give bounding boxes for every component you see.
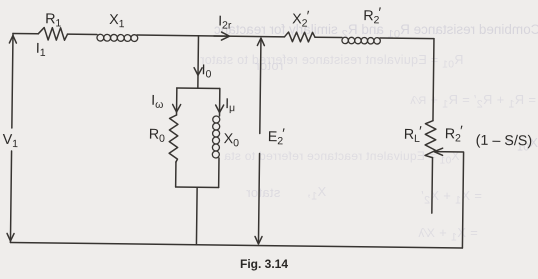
svg-text:E2′: E2′ (268, 126, 286, 147)
svg-text:X0: X0 (224, 131, 240, 149)
svg-text:V1: V1 (3, 132, 19, 150)
svg-text:I2r: I2r (218, 14, 232, 32)
svg-text:R2′: R2′ (445, 123, 463, 144)
svg-text:R1: R1 (45, 11, 62, 29)
svg-text:Iμ: Iμ (225, 96, 235, 114)
svg-text:I0: I0 (201, 62, 211, 80)
svg-text:Iω: Iω (151, 93, 163, 111)
svg-text:X2′: X2′ (292, 8, 310, 29)
svg-text:(1 – S/S): (1 – S/S) (476, 133, 533, 150)
svg-text:RL′: RL′ (404, 124, 422, 145)
svg-text:I1: I1 (36, 41, 46, 59)
svg-text:R2′: R2′ (363, 5, 381, 26)
svg-text:X1: X1 (109, 12, 125, 30)
svg-text:Fig. 3.14: Fig. 3.14 (240, 257, 288, 271)
svg-text:R0: R0 (149, 127, 166, 145)
